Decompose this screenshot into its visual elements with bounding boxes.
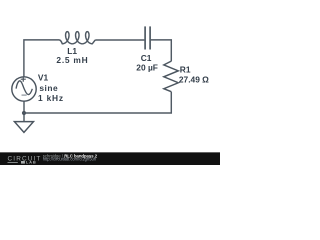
svg-text:V1: V1 bbox=[38, 73, 49, 83]
svg-text:2.5 mH: 2.5 mH bbox=[56, 55, 88, 65]
logo block icon bbox=[21, 161, 25, 164]
svg-text:R1: R1 bbox=[180, 64, 191, 74]
svg-text:sine: sine bbox=[39, 83, 58, 93]
inductor L1 coil bbox=[59, 32, 95, 44]
logo underline left bbox=[8, 161, 18, 164]
svg-text:27.49 Ω: 27.49 Ω bbox=[179, 74, 209, 84]
minus sign of V1 bbox=[22, 94, 27, 96]
footer bar bbox=[0, 152, 220, 165]
wire: inductor to capacitor left plate bbox=[95, 39, 144, 41]
resistor R1 zigzag bbox=[164, 61, 179, 92]
capacitor C1 plates bbox=[145, 26, 150, 49]
voltage source V1 circle bbox=[12, 77, 36, 101]
wire: resistor bottom to bottom-right corner and bottom wire to junction bbox=[24, 92, 171, 113]
svg-text:20 µF: 20 µF bbox=[136, 63, 158, 73]
svg-text:LAB: LAB bbox=[26, 160, 37, 165]
wire: left vertical from source top to top-left corner, top wire to inductor bbox=[24, 40, 59, 77]
junction node dot bbox=[22, 111, 26, 115]
plus sign of V1 bbox=[21, 77, 26, 82]
ground symbol bbox=[14, 122, 33, 133]
svg-text:1 kHz: 1 kHz bbox=[38, 93, 64, 103]
svg-text:http://circuitlab.com/c/2gh5uh: http://circuitlab.com/c/2gh5uh bbox=[43, 157, 97, 162]
wire: capacitor right to top-right corner, down to resistor top bbox=[151, 40, 172, 61]
svg-text:C1: C1 bbox=[141, 53, 152, 63]
wire: source bottom to junction to ground stub bbox=[23, 101, 25, 121]
sine wave inside V1 bbox=[16, 81, 32, 95]
footer bar top edge line bbox=[0, 151, 220, 154]
